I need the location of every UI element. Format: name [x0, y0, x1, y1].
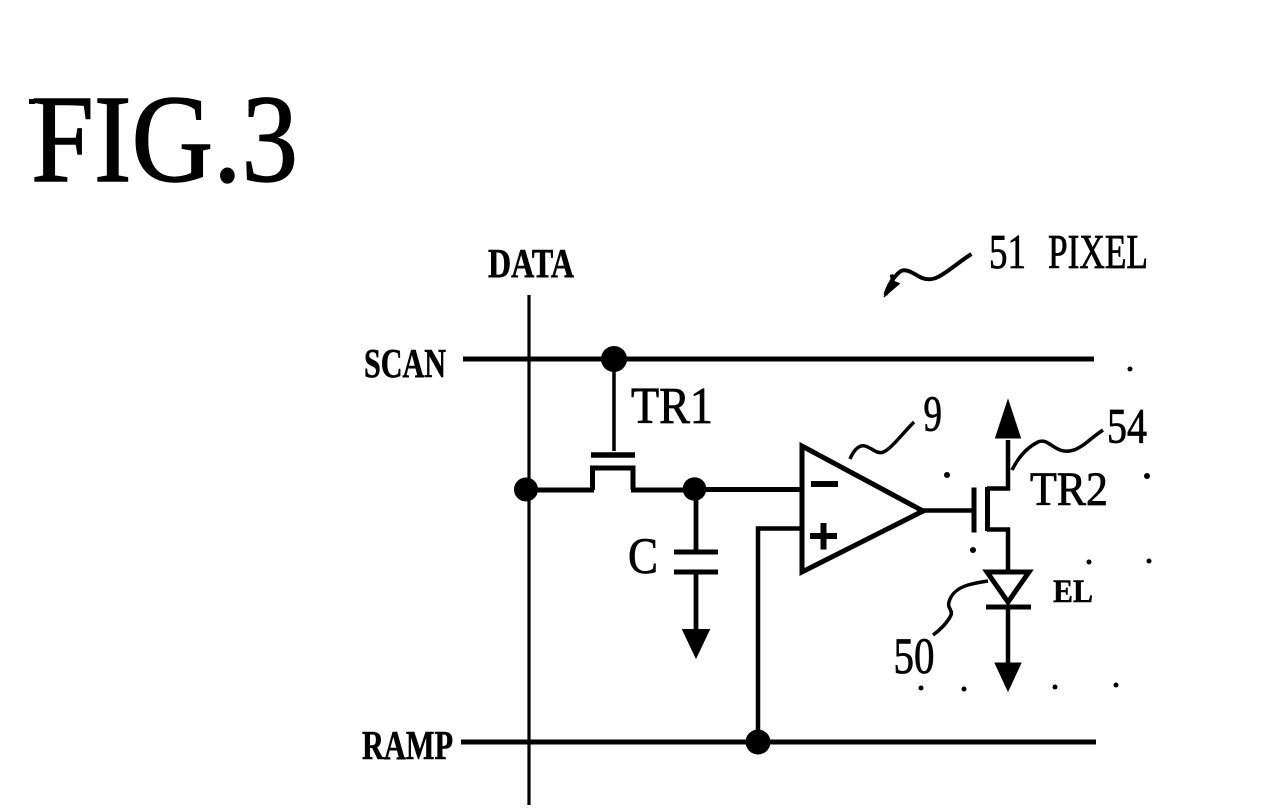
- svg-text:SCAN: SCAN: [364, 340, 446, 386]
- svg-text:9: 9: [924, 387, 943, 443]
- svg-text:TR1: TR1: [631, 378, 713, 435]
- op-amp non-inverting input mark (+): [810, 523, 837, 550]
- wire TR1 gate stem: [612, 359, 616, 451]
- svg-text:51: 51: [989, 224, 1026, 279]
- transistor TR1: [591, 455, 635, 490]
- wire RAMP line (horizontal): [461, 740, 1096, 745]
- leader arrow 51 PIXEL: [884, 254, 972, 297]
- svg-text:FIG.3: FIG.3: [31, 71, 298, 209]
- svg-text:54: 54: [1107, 398, 1147, 454]
- ground arrow (capacitor): [683, 630, 710, 659]
- wire DATA to TR1 source: [526, 488, 594, 493]
- wire SCAN line (horizontal): [463, 357, 1094, 362]
- ground arrow (EL cathode): [995, 663, 1021, 691]
- svg-text:PIXEL: PIXEL: [1048, 224, 1148, 279]
- svg-text:RAMP: RAMP: [362, 722, 453, 768]
- leader squiggle 54: [1012, 430, 1103, 470]
- svg-text:C: C: [628, 529, 658, 585]
- diode EL: [986, 572, 1031, 665]
- junction DATA / TR1 source: [514, 478, 538, 502]
- wire op-amp output to TR2 gate: [921, 508, 974, 513]
- leader squiggle 9: [850, 422, 914, 459]
- junction TR1 drain / capacitor node: [683, 477, 707, 501]
- wire node to op-amp minus input: [694, 487, 801, 492]
- op-amp inverting input mark (-): [811, 481, 838, 487]
- transistor TR2: [974, 440, 1008, 572]
- power arrow 54 (supply): [996, 400, 1021, 438]
- svg-text:EL: EL: [1053, 574, 1093, 610]
- junction RAMP / plus input: [746, 730, 771, 755]
- wire TR1 drain to node: [631, 488, 694, 493]
- leader squiggle 50: [933, 581, 988, 635]
- capacitor C: [674, 497, 718, 631]
- wire plus input from RAMP: [758, 529, 802, 743]
- svg-text:50: 50: [894, 629, 935, 685]
- noise tick near title: [29, 99, 35, 104]
- op-amp 9 (triangle): [802, 446, 923, 572]
- svg-text:TR2: TR2: [1030, 463, 1108, 516]
- junction SCAN / TR1 gate: [601, 346, 627, 372]
- noise specks: [919, 367, 1152, 692]
- svg-text:DATA: DATA: [488, 240, 574, 286]
- wire DATA line (vertical): [527, 295, 530, 805]
